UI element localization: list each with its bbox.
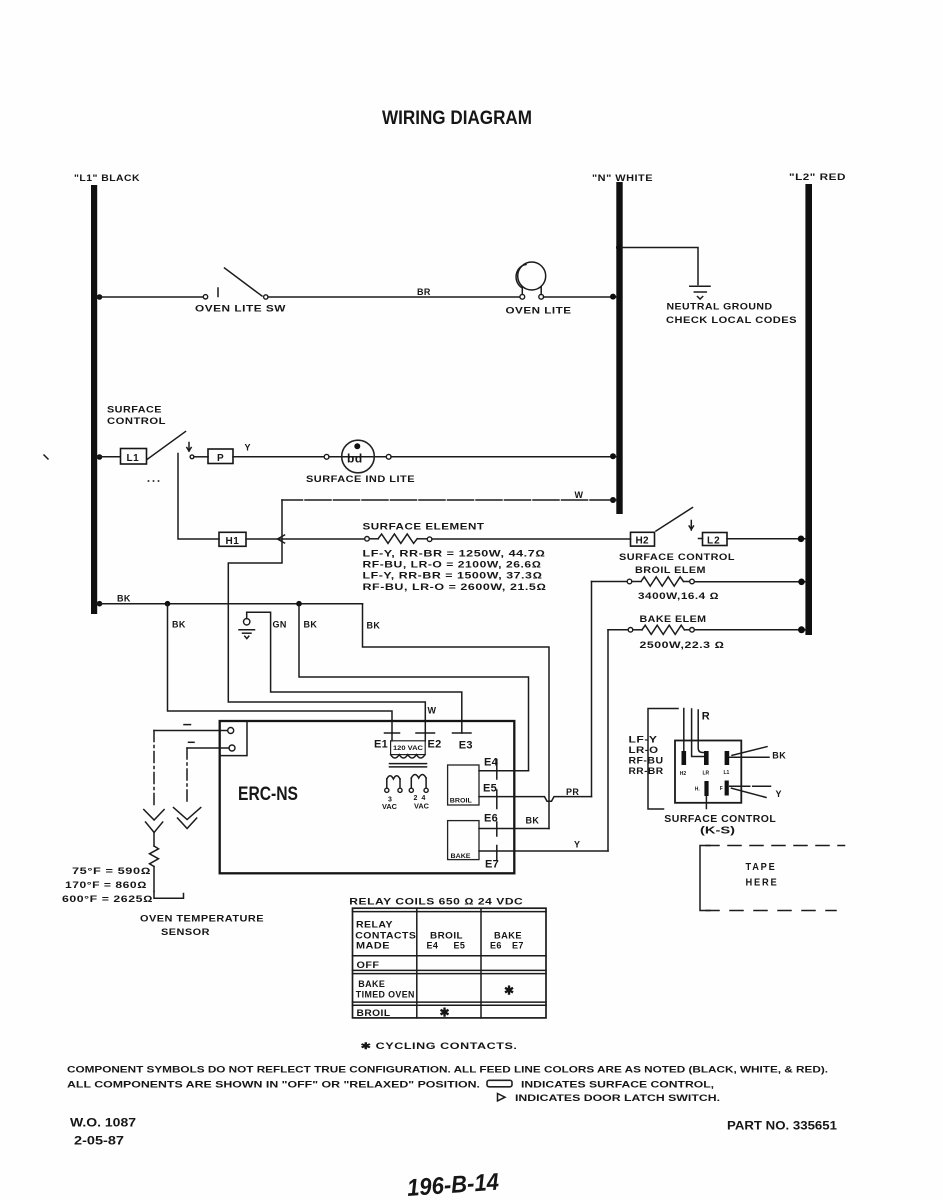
wire ind lite to N bus [391,453,616,459]
svg-text:RELAY: RELAY [356,919,393,929]
pin H2 [680,751,687,777]
handwritten 196-B-14 [406,1169,500,1200]
svg-text:BAKE: BAKE [494,930,522,940]
label BR [417,287,431,297]
svg-text:LR: LR [703,771,710,777]
wire sensor lead 1 [154,731,228,807]
wire switch to oven lite [268,296,520,298]
svg-text:L1: L1 [724,770,730,776]
svg-text:SURFACE CONTROL: SURFACE CONTROL [664,813,776,825]
svg-text:SURFACE ELEMENT: SURFACE ELEMENT [363,521,485,531]
svg-text:ALL COMPONENTS ARE SHOWN IN "O: ALL COMPONENTS ARE SHOWN IN "OFF" OR "RE… [67,1079,480,1089]
wire bake to L2 bus [694,626,806,633]
leader BK [730,747,770,758]
ground neutral [690,286,710,299]
svg-text:LF-Y, RR-BR = 1500W, 37.3Ω: LF-Y, RR-BR = 1500W, 37.3Ω [363,571,543,581]
svg-text:BROIL: BROIL [450,799,472,805]
svg-text:E7: E7 [512,941,524,951]
svg-text:✱: ✱ [504,984,514,998]
terminal E2 [416,733,442,751]
svg-text:PART NO. 335651: PART NO. 335651 [727,1121,838,1133]
table header text [355,919,524,950]
resistor broil element [592,577,695,586]
svg-text:E3: E3 [459,740,473,752]
transformer secondary 1 [382,776,402,811]
sensor wire minus tick 1 [184,724,191,726]
wire BK to E1 [168,604,393,733]
svg-text:BK: BK [172,619,186,629]
wire L1 bus to L1 box [97,456,120,458]
wire BK main [97,603,363,605]
label Y (E7 wire) [574,839,580,849]
box L1 [121,449,147,465]
svg-text:PR: PR [566,787,579,797]
label BK (E6 wire) [526,815,540,825]
bus N [616,182,622,514]
svg-text:LF-Y: LF-Y [629,735,658,745]
label BK (K-S) [772,750,786,760]
connector chevrons pair 2 [174,808,201,829]
switch surface control right blade [656,508,693,532]
bus L1 label [74,173,140,183]
svg-text:BK: BK [304,619,318,629]
door latch symbol (right) [689,521,693,531]
wire PR vertical [591,582,593,797]
svg-text:H.: H. [695,787,701,793]
svg-text:MADE: MADE [356,941,390,951]
label Y (K-S) [776,789,782,799]
label BK (E6 drop) [367,620,381,630]
svg-text:bd: bd [347,452,363,466]
wire L2 box to L2 bus [727,536,806,543]
wire BK to E6 [363,604,550,829]
tape here box [700,846,845,911]
svg-text:TAPE: TAPE [746,861,777,873]
svg-text:W: W [575,490,584,500]
label PART NO [727,1121,838,1133]
node L1-ovenlite junction [97,294,103,300]
svg-text:RF-BU, LR-O = 2100W, 26.6Ω: RF-BU, LR-O = 2100W, 26.6Ω [363,560,542,570]
svg-text:P: P [217,453,224,464]
label E6 [484,812,498,824]
svg-text:OFF: OFF [357,960,380,970]
svg-text:E6: E6 [490,941,502,951]
label SURFACE CONTROL (K-S) [664,813,776,825]
svg-text:120 VAC: 120 VAC [393,745,423,752]
node L1-surface junction [97,454,103,460]
label 3400W [638,591,719,601]
label OVEN TEMPERATURE [140,914,264,924]
speck [44,455,48,459]
svg-text:"L1" BLACK: "L1" BLACK [74,173,140,183]
pin F bottom [720,781,729,796]
bus L2 [805,184,812,635]
svg-text:BROIL ELEM: BROIL ELEM [635,565,706,575]
svg-text:L2: L2 [707,535,721,546]
svg-text:WIRING DIAGRAM: WIRING DIAGRAM [382,107,532,129]
wire E7 (Y) [479,846,608,861]
transformer primary [391,733,426,758]
svg-text:OVEN LITE: OVEN LITE [506,306,572,316]
svg-text:GN: GN [273,619,287,629]
bus L1 [91,185,97,614]
node N-W junction [610,497,616,503]
note line 2 [67,1079,714,1089]
svg-text:✱: ✱ [440,1006,450,1020]
box H1 [219,532,246,547]
svg-text:600°F = 2625Ω: 600°F = 2625Ω [62,894,153,904]
svg-text:SURFACE CONTROL: SURFACE CONTROL [619,552,735,562]
label TAPE [746,861,777,873]
wire R [698,710,704,753]
svg-text:NEUTRAL GROUND: NEUTRAL GROUND [667,302,773,312]
wire E5 (PR) [479,790,592,809]
wire N bus to ground [621,248,698,285]
svg-text:HERE: HERE [746,876,779,888]
svg-text:E1: E1 [374,739,388,751]
wire sensor lead 2 [187,748,229,801]
wire H1 to element [246,535,365,543]
svg-text:BK: BK [117,593,131,603]
svg-text:E5: E5 [454,941,466,951]
table row BAKE TIMED OVEN [356,979,514,999]
label CHECK LOCAL CODES [666,315,797,325]
lamp SURFACE IND LITE [324,440,391,473]
relay BROIL [448,765,479,805]
door latch symbol (surface row) [187,443,191,452]
svg-text:BAKE: BAKE [451,853,472,860]
wire switch to element row [178,454,219,540]
label W (near N bus) [575,490,584,500]
label NEUTRAL GROUND [667,302,773,312]
svg-text:Y: Y [776,789,782,799]
svg-text:Y: Y [574,839,580,849]
bus L2 label [789,172,846,182]
terminal E1 [374,733,400,751]
svg-text:✱ CYCLING CONTACTS.: ✱ CYCLING CONTACTS. [361,1041,518,1051]
terminal circles [228,728,235,752]
svg-text:INDICATES DOOR LATCH SWITCH.: INDICATES DOOR LATCH SWITCH. [515,1093,720,1103]
wire W from N bus [282,499,616,501]
svg-text:ERC-NS: ERC-NS [238,784,298,805]
label SENSOR [161,927,210,937]
svg-text:H1: H1 [226,536,240,547]
wire BK to E4 [299,604,529,771]
svg-text:L1: L1 [127,453,140,464]
svg-text:VAC: VAC [414,804,429,811]
lamp OVEN LITE [516,262,546,299]
table row BROIL [357,1006,450,1020]
label element ratings [363,548,547,592]
wire H pin stub [705,796,707,809]
node BK junction 2 [296,601,302,607]
svg-text:3400W,16.4 Ω: 3400W,16.4 Ω [638,591,719,601]
svg-text:H2: H2 [680,771,687,777]
transformer secondary 2 [409,775,429,811]
wire L1 to oven lite switch [97,296,203,298]
wire to LR pin [692,709,704,757]
label W (at E2) [428,706,437,716]
pin LR [703,751,710,777]
svg-text:CONTROL: CONTROL [107,416,166,426]
label RELAY COILS [349,896,523,906]
svg-text:BAKE: BAKE [358,979,385,989]
label PR [566,787,579,797]
svg-text:TIMED OVEN: TIMED OVEN [356,989,415,999]
board terminal notch [220,722,247,756]
connector chevrons pair 1 [144,810,164,833]
svg-text:F: F [720,786,723,792]
node L1-BK junction [97,601,103,607]
note line 3 [498,1093,721,1103]
svg-text:RELAY COILS 650 Ω 24 VDC: RELAY COILS 650 Ω 24 VDC [349,896,523,906]
svg-text:W.O. 1087: W.O. 1087 [70,1115,136,1129]
label ERC-NS [238,784,298,805]
box P [208,449,233,464]
svg-text:VAC: VAC [382,804,397,811]
label E4 [484,756,499,768]
node N-ground junction [616,245,622,251]
wire to H2 pin [683,709,685,752]
label BAKE ELEM [640,614,707,624]
box L2 [699,533,728,547]
svg-text:RF-BU, LR-O = 2600W, 21.5Ω: RF-BU, LR-O = 2600W, 21.5Ω [363,582,547,592]
svg-text:OVEN TEMPERATURE: OVEN TEMPERATURE [140,914,264,924]
label LF-Y block [629,735,664,777]
node BK junction 1 [165,601,171,607]
svg-text:3: 3 [388,797,392,804]
svg-text:E2: E2 [428,739,442,751]
label 2-05-87 [74,1133,124,1147]
resistor oven temp sensor [150,833,184,899]
svg-text:H2: H2 [636,536,650,547]
wire E6 [479,822,549,836]
bus N label [592,173,653,183]
svg-text:BROIL: BROIL [357,1008,391,1018]
transformer core [390,764,427,767]
box surface control K-S [675,741,741,803]
label SURFACE CONTROL (left) [107,405,166,426]
svg-text:75°F = 590Ω: 75°F = 590Ω [72,866,151,876]
svg-text:W: W [428,706,437,716]
svg-text:E5: E5 [483,783,497,795]
svg-text:INDICATES SURFACE CONTROL,: INDICATES SURFACE CONTROL, [521,1079,714,1089]
label R [702,711,710,723]
box H2 [631,532,655,546]
title [382,107,532,129]
board ERC-NS outline [220,721,515,873]
svg-text:4: 4 [422,795,426,802]
resistor bake element [608,625,694,634]
svg-text:BK: BK [772,750,786,760]
svg-text:"N" WHITE: "N" WHITE [592,173,653,183]
svg-text:196-B-14: 196-B-14 [406,1169,500,1200]
label OVEN LITE SW [195,304,286,314]
wire GN to E3 [247,612,462,733]
pin L1k [724,751,730,776]
table row OFF [357,960,380,970]
label (K-S) [700,825,735,837]
wire W drop [228,500,425,733]
label E7 [485,858,499,870]
pin H bottom [695,781,709,796]
switch OVEN LITE SW [203,268,268,299]
svg-text:BR: BR [417,287,431,297]
svg-text:BK: BK [526,815,540,825]
svg-text:BAKE ELEM: BAKE ELEM [640,614,707,624]
wire E4 [479,760,529,780]
resistor surface element [365,534,432,543]
svg-text:CHECK LOCAL CODES: CHECK LOCAL CODES [666,315,797,325]
svg-text:COMPONENT SYMBOLS DO NOT REFLE: COMPONENT SYMBOLS DO NOT REFLECT TRUE CO… [67,1064,828,1074]
label BK (E1 drop) [172,619,186,629]
label BK (main) [117,593,131,603]
wire element to H2 [432,538,631,540]
svg-text:170°F = 860Ω: 170°F = 860Ω [65,880,147,890]
label SURFACE ELEMENT [363,521,485,531]
relay BAKE [448,821,479,860]
svg-text:RF-BU: RF-BU [629,756,664,766]
label SURFACE CONTROL (right) [619,552,735,562]
svg-text:SENSOR: SENSOR [161,927,210,937]
label OVEN LITE [506,306,572,316]
label cycling contacts [361,1041,518,1051]
connector bracket K-S [648,709,678,810]
svg-text:E6: E6 [484,812,498,824]
svg-text:2: 2 [414,795,418,802]
wire P to ind lite [233,456,324,458]
svg-text:2-05-87: 2-05-87 [74,1133,124,1147]
svg-text:(K-S): (K-S) [700,825,735,837]
wire Y vertical [607,630,609,851]
svg-text:R: R [702,711,710,723]
label 2500W [640,640,725,650]
svg-text:E4: E4 [484,756,499,768]
svg-text:2500W,22.3 Ω: 2500W,22.3 Ω [640,640,725,650]
svg-text:BROIL: BROIL [430,930,463,940]
table relay contacts [353,908,547,1018]
label HERE [746,876,779,888]
svg-text:Y: Y [245,443,251,453]
terminal E3 [453,733,473,752]
label E5 [483,783,497,795]
ground GN [239,612,255,638]
svg-text:SURFACE IND LITE: SURFACE IND LITE [306,474,415,484]
label BK (E4 drop) [304,619,318,629]
dots ... [148,480,160,482]
wire oven lite to N bus [544,294,617,300]
svg-text:OVEN LITE SW: OVEN LITE SW [195,304,286,314]
leader Y [730,786,771,797]
label Y [245,443,251,453]
label W.O. 1087 [70,1115,136,1129]
label sensor resistances [62,866,153,904]
label SURFACE IND LITE [306,474,415,484]
label GN [273,619,287,629]
svg-text:"L2" RED: "L2" RED [789,172,846,182]
svg-text:BK: BK [367,620,381,630]
label BROIL ELEM [635,565,706,575]
svg-text:RR-BR: RR-BR [629,766,664,776]
svg-text:E7: E7 [485,858,499,870]
svg-text:E4: E4 [427,941,439,951]
svg-text:LF-Y, RR-BR = 1250W, 44.7Ω: LF-Y, RR-BR = 1250W, 44.7Ω [363,548,546,558]
note line 1 [67,1064,828,1074]
sensor wire minus tick 2 [189,741,195,743]
wire broil to L2 bus [694,579,806,586]
svg-text:SURFACE: SURFACE [107,405,162,415]
svg-text:CONTACTS: CONTACTS [355,930,416,940]
wire contact to P box [190,455,208,459]
switch surface control blade [147,432,186,460]
svg-text:LR-O: LR-O [629,745,659,755]
